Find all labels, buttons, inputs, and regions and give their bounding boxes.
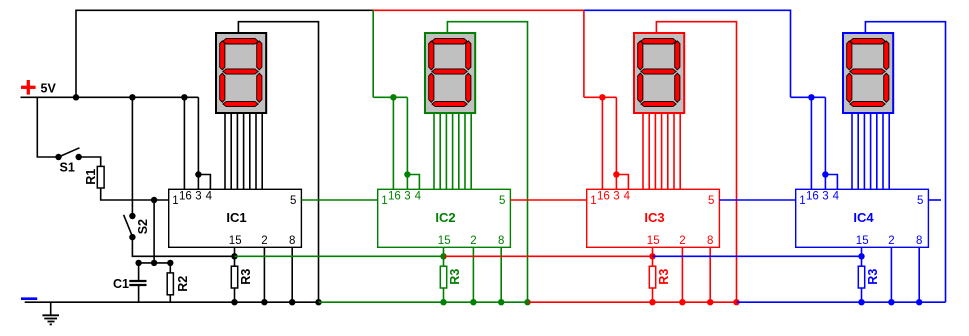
svg-text:R2: R2 <box>176 276 190 292</box>
svg-text:15: 15 <box>647 235 660 247</box>
wire IC3 pin 15 <box>652 247 654 256</box>
junction on 5V rail at top-bus tap <box>73 94 79 100</box>
wire IC3 pin 16 from 5V rail <box>601 97 603 189</box>
junction rail / IC3 pin 16 <box>599 94 605 100</box>
display DS2 segment G <box>432 69 467 74</box>
wire IC1 pin 8 to ground bus <box>291 247 293 302</box>
wire IC2 pin 3 from 5V rail <box>406 97 408 189</box>
wire 5V rail <box>21 96 199 98</box>
junction R2 top <box>167 260 173 266</box>
junction ground bus / pin 8 <box>916 299 922 305</box>
wire IC2 pin 4 branch <box>407 175 419 190</box>
junction ground bus / pin 8 <box>707 299 713 305</box>
junction ground bus / pin 2 <box>679 299 685 305</box>
7-segment display DS2 <box>425 33 475 113</box>
display DS2 segment A <box>432 38 467 44</box>
wires DS2 segment pins to IC2 <box>434 113 471 189</box>
wire IC3 pin 4 branch <box>616 175 628 190</box>
wire R3 bottom lead <box>443 288 445 302</box>
wire R3 bottom lead <box>234 288 236 302</box>
display DS1 segment B <box>257 41 262 70</box>
svg-text:16: 16 <box>179 190 192 202</box>
display DS1 segment A <box>223 38 258 44</box>
switch S1 <box>55 148 82 160</box>
svg-text:IC4: IC4 <box>853 210 874 225</box>
svg-text:R1: R1 <box>84 169 98 185</box>
display DS4 segment C <box>884 73 889 102</box>
svg-text:IC2: IC2 <box>435 210 455 225</box>
junction ground bus / pin 2 <box>470 299 476 305</box>
svg-text:5: 5 <box>917 195 923 207</box>
junction ground bus / R3 <box>440 299 446 305</box>
junction ground bus / pin 2 <box>888 299 894 305</box>
junction ground bus / R3 <box>649 299 655 305</box>
display DS4 segment G <box>850 69 885 74</box>
display DS3 segment E <box>638 73 643 102</box>
display DS2 segment B <box>466 41 471 70</box>
wire 5V top bus blue segment with drop to section 4 <box>584 10 791 97</box>
svg-text:15: 15 <box>856 235 869 247</box>
display DS3 segment G <box>641 69 676 74</box>
wire R1 to IC1 pin 1 <box>101 188 169 200</box>
display DS1 segment F <box>220 41 225 70</box>
wire IC2 pin 15 <box>443 247 445 256</box>
resistor R3 (section 2) <box>440 266 446 288</box>
junction rail / IC4 pin 16 <box>808 94 814 100</box>
wire IC1 pin 2 to ground bus <box>263 247 265 302</box>
wire C1 bottom lead <box>138 286 140 302</box>
junction pin15 bus <box>231 253 237 259</box>
svg-text:IC3: IC3 <box>644 210 664 225</box>
display DS1 segment G <box>223 69 258 74</box>
junction on 5V rail above S2 <box>129 94 135 100</box>
junction pin3/pin4 branch <box>613 171 619 177</box>
wire IC2 pin 8 to ground bus <box>500 247 502 302</box>
wire S1 to R1 <box>79 157 101 166</box>
resistor R3 (section 3) <box>649 266 655 288</box>
display DS2 segment E <box>429 73 434 102</box>
svg-text:C1: C1 <box>113 277 129 291</box>
display DS3 segment C <box>675 73 680 102</box>
wire pin15 bus blue segment <box>653 255 862 257</box>
svg-text:4: 4 <box>833 190 840 202</box>
svg-text:5V: 5V <box>41 82 57 96</box>
wire R3 bottom lead <box>861 288 863 302</box>
junction pin3/pin4 branch <box>822 171 828 177</box>
display DS4 segment F <box>847 41 852 70</box>
wire 5V top bus green drop to section 2 <box>372 10 374 98</box>
wire IC4 pin 8 to ground bus <box>918 247 920 302</box>
display DS2 segment D <box>432 101 467 106</box>
junction ground bus / display loop <box>315 299 321 305</box>
IC IC4 <box>796 189 929 247</box>
svg-text:2: 2 <box>679 235 685 247</box>
wire ground bus red segment <box>528 301 737 303</box>
wire C1/R2 branch row <box>139 262 171 264</box>
wire ground bus blue segment <box>737 301 946 303</box>
wire IC4 pin 5 stub <box>928 199 941 201</box>
display DS2 segment F <box>429 41 434 70</box>
wire junction down to C1 row <box>153 200 155 263</box>
display DS1 segment D <box>223 101 258 106</box>
junction ground bus / pin 8 <box>498 299 504 305</box>
display DS4 segment D <box>850 101 885 106</box>
svg-text:1: 1 <box>799 195 805 207</box>
display DS4 segment A <box>850 38 885 44</box>
junction pin15 bus <box>858 253 864 259</box>
svg-text:8: 8 <box>289 235 295 247</box>
wire R3 top lead <box>861 256 863 266</box>
wire 5V top bus black segment <box>76 10 373 97</box>
wire R2 top lead <box>169 263 171 273</box>
7-segment display DS4 <box>843 33 893 113</box>
junction ground bus / display loop <box>524 299 530 305</box>
svg-text:R3: R3 <box>866 269 880 285</box>
svg-text:16: 16 <box>388 190 401 202</box>
svg-text:5: 5 <box>708 195 714 207</box>
IC IC1 <box>169 189 302 247</box>
svg-text:4: 4 <box>415 190 422 202</box>
junction pin3/pin4 branch <box>195 171 201 177</box>
resistor R3 (section 1) <box>231 266 237 288</box>
junction rail / IC2 pin 16 <box>390 94 396 100</box>
wire DS2 common anode loop to ground bus <box>447 22 527 303</box>
resistor R1 <box>97 166 104 188</box>
svg-text:R3: R3 <box>448 269 462 285</box>
svg-text:2: 2 <box>888 235 894 247</box>
display DS2 segment C <box>466 73 471 102</box>
wire DS4 common anode loop to ground bus <box>865 22 945 303</box>
svg-text:R3: R3 <box>657 269 671 285</box>
svg-text:3: 3 <box>404 190 410 202</box>
wire IC3 pin 3 from 5V rail <box>615 97 617 189</box>
display DS4 segment B <box>884 41 889 70</box>
svg-text:4: 4 <box>206 190 213 202</box>
display DS1 segment C <box>257 73 262 102</box>
wire ground bus black segment <box>25 301 319 303</box>
wire ground bus green segment <box>319 301 528 303</box>
negative battery terminal (blue bar) <box>21 297 37 300</box>
wire DS3 common anode loop to ground bus <box>656 22 736 303</box>
svg-text:S2: S2 <box>136 219 150 234</box>
wire 5V rail section 3 <box>584 96 617 98</box>
junction ground bus / R3 <box>858 299 864 305</box>
svg-text:8: 8 <box>707 235 713 247</box>
svg-text:5: 5 <box>290 195 296 207</box>
wire IC1 pin 3 from 5V rail <box>197 97 199 189</box>
svg-text:1: 1 <box>381 195 387 207</box>
wires DS3 segment pins to IC3 <box>643 113 680 189</box>
svg-text:3: 3 <box>822 190 828 202</box>
wire IC3 pin 5 to IC4 pin 1 <box>719 199 795 201</box>
IC IC2 <box>378 189 511 247</box>
wire R2 bottom lead <box>169 295 171 302</box>
wire IC2 pin 16 from 5V rail <box>392 97 394 189</box>
wire 5V rail section 4 <box>791 96 826 98</box>
junction ground bus / pin 2 <box>261 299 267 305</box>
wire IC3 pin 8 to ground bus <box>709 247 711 302</box>
junction R1-wire / C1 branch <box>151 197 157 203</box>
7-segment display DS3 <box>634 33 684 113</box>
wire DS1 common anode loop to ground bus <box>238 22 318 303</box>
junction ground bus / display loop <box>733 299 739 305</box>
wire R3 bottom lead <box>652 288 654 302</box>
svg-text:IC1: IC1 <box>226 210 246 225</box>
svg-text:2: 2 <box>261 235 267 247</box>
wire pin15 bus red segment <box>444 255 653 257</box>
junction centre of branch row <box>151 260 157 266</box>
wire S2 to pin15 bus <box>132 237 234 256</box>
svg-text:16: 16 <box>806 190 819 202</box>
svg-text:3: 3 <box>613 190 619 202</box>
wire pin15 bus green segment <box>235 255 444 257</box>
svg-text:15: 15 <box>229 235 242 247</box>
junction pin15 bus <box>440 253 446 259</box>
svg-text:1: 1 <box>590 195 596 207</box>
svg-text:S1: S1 <box>60 160 75 174</box>
svg-text:1: 1 <box>172 195 178 207</box>
display DS3 segment F <box>638 41 643 70</box>
wire IC4 pin 4 branch <box>825 175 837 190</box>
display DS3 segment A <box>641 38 676 44</box>
junction ground bus / pin 8 <box>289 299 295 305</box>
IC IC3 <box>587 189 720 247</box>
junction pin15 bus <box>649 253 655 259</box>
junction on 5V rail at IC1 pin 16 <box>181 94 187 100</box>
7-segment display DS1 <box>216 33 266 113</box>
display DS3 segment B <box>675 41 680 70</box>
wire R3 top lead <box>234 256 236 266</box>
wire IC1 pin 16 from 5V rail <box>183 97 185 189</box>
wire IC3 pin 2 to ground bus <box>681 247 683 302</box>
wire C1 top lead <box>138 263 140 280</box>
wire IC4 pin 16 from 5V rail <box>810 97 812 189</box>
switch S2 <box>124 213 136 241</box>
wire 5V rail down to S1 <box>37 97 58 157</box>
resistor R2 <box>167 273 173 295</box>
svg-text:R3: R3 <box>239 269 253 285</box>
wire IC1 pin 15 <box>234 247 236 256</box>
wire 5V rail down to S2 <box>131 97 133 216</box>
wire IC2 pin 5 to IC3 pin 1 <box>510 199 586 201</box>
svg-text:8: 8 <box>916 235 922 247</box>
svg-text:2: 2 <box>470 235 476 247</box>
wire IC1 pin 5 to IC2 pin 1 <box>301 199 377 201</box>
junction ground bus / R3 <box>231 299 237 305</box>
svg-text:3: 3 <box>195 190 201 202</box>
svg-text:4: 4 <box>624 190 631 202</box>
display DS3 segment D <box>641 101 676 106</box>
svg-text:8: 8 <box>498 235 504 247</box>
ground <box>42 302 59 324</box>
wire IC4 pin 2 to ground bus <box>890 247 892 302</box>
svg-text:5: 5 <box>499 195 505 207</box>
display DS1 segment E <box>220 73 225 102</box>
junction C1 top <box>135 260 141 266</box>
wire 5V top bus red segment with drop to section 3 <box>373 10 584 97</box>
wire IC1 pin 4 branch <box>198 175 210 190</box>
wire R3 top lead <box>443 256 445 266</box>
wires DS4 segment pins to IC4 <box>852 113 889 189</box>
display DS4 segment E <box>847 73 852 102</box>
resistor R3 (section 4) <box>858 266 864 288</box>
wire IC4 pin 3 from 5V rail <box>824 97 826 189</box>
wire 5V rail section 2 <box>373 96 407 98</box>
power +5V terminal symbol <box>21 80 36 95</box>
svg-text:16: 16 <box>597 190 610 202</box>
wire IC4 pin 15 <box>861 247 863 256</box>
wires DS1 segment pins to IC1 <box>225 113 262 189</box>
capacitor C1 <box>129 281 146 285</box>
svg-text:15: 15 <box>438 235 451 247</box>
wire R3 top lead <box>652 256 654 266</box>
junction pin3/pin4 branch <box>404 171 410 177</box>
wire IC2 pin 2 to ground bus <box>472 247 474 302</box>
